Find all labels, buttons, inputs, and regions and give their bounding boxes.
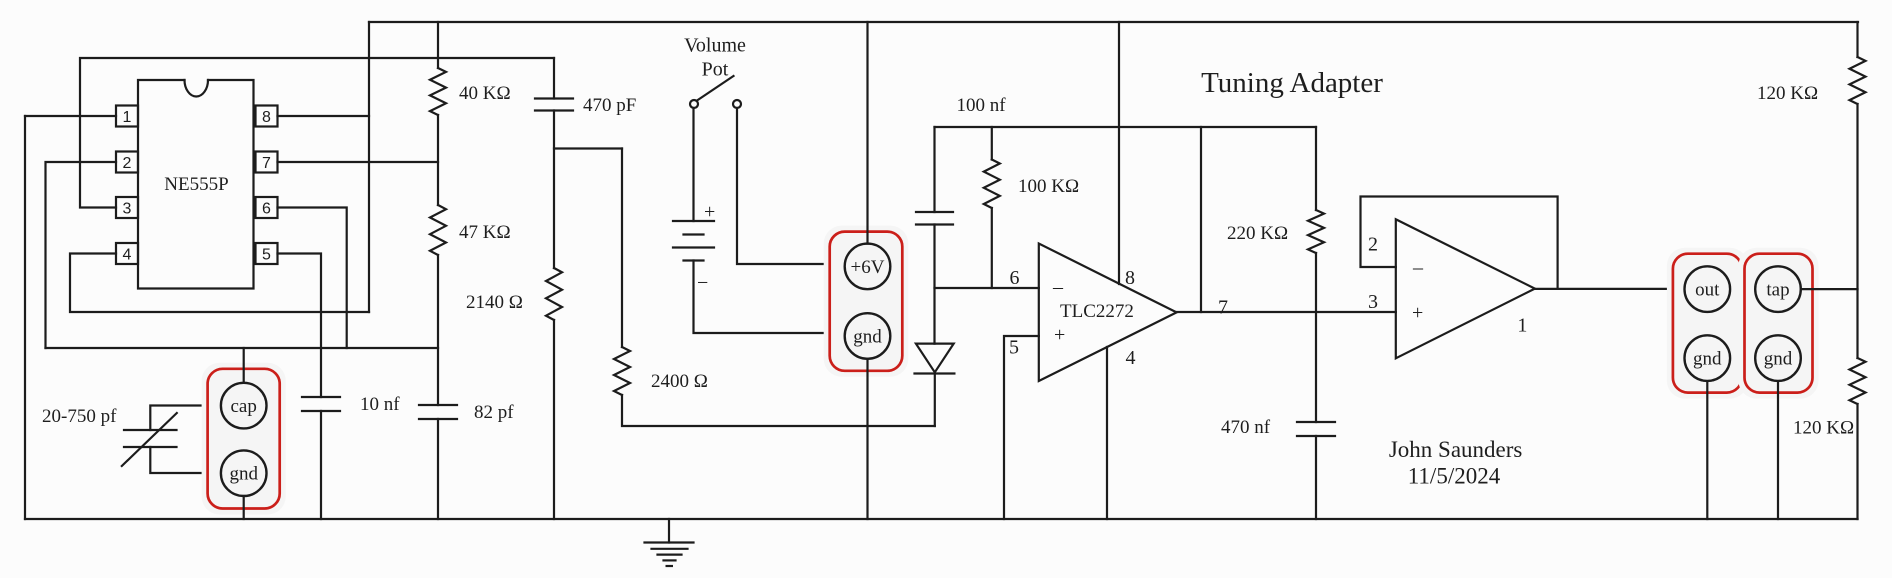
svg-text:2: 2 — [123, 155, 132, 172]
capacitor 470 pF — [535, 95, 636, 116]
wire top supply rail — [369, 21, 1858, 23]
svg-text:8: 8 — [1125, 267, 1135, 289]
svg-text:out: out — [1695, 280, 1720, 301]
svg-text:47 KΩ: 47 KΩ — [459, 222, 511, 243]
capacitor 470 nf — [1221, 417, 1335, 438]
wire 2400 resistor to diode bottom — [622, 395, 935, 426]
svg-text:7: 7 — [1218, 297, 1228, 319]
wire inverting input (pin 6) of op-amp U2 — [935, 287, 1039, 289]
wire 100 nf down to diode — [933, 225, 935, 344]
svg-text:470 pF: 470 pF — [583, 95, 636, 116]
svg-text:4: 4 — [123, 247, 132, 264]
wire pin 8 to VCC vertical — [278, 115, 370, 117]
svg-text:11/5/2024: 11/5/2024 — [1408, 464, 1501, 489]
wire gnd connector to ground rail — [866, 359, 868, 519]
wire branch to 2400 resistor — [554, 147, 622, 149]
wire supply vertical through +6V connector — [866, 22, 868, 244]
wire unity feedback loop pin 2 to output — [1361, 197, 1558, 289]
pin 8 — [256, 106, 278, 127]
wire pin 7 discharge to resistor divider — [278, 161, 439, 163]
ground — [645, 519, 694, 566]
wire VCC vertical at x=369 — [368, 22, 370, 312]
wire diode to 2400 net — [934, 374, 936, 427]
svg-text:1: 1 — [1517, 315, 1527, 337]
svg-text:3: 3 — [123, 201, 132, 218]
svg-text:40 KΩ: 40 KΩ — [459, 83, 511, 104]
svg-text:tap: tap — [1766, 280, 1789, 301]
svg-text:gnd: gnd — [1693, 349, 1722, 370]
node cap connector — [202, 363, 286, 515]
wire 2140 resistor to ground rail — [553, 320, 555, 519]
pin 1 — [116, 106, 138, 127]
node +6V connector — [824, 226, 909, 377]
svg-text:NE555P: NE555P — [164, 174, 228, 195]
wire lower 120K to ground rail — [1856, 404, 1858, 519]
wire 82 pf to ground rail — [437, 419, 439, 519]
svg-text:5: 5 — [1009, 337, 1019, 359]
svg-text:82 pf: 82 pf — [474, 402, 514, 423]
svg-text:4: 4 — [1126, 347, 1136, 369]
svg-text:gnd: gnd — [1764, 349, 1793, 370]
resistor 2400 Ohm — [614, 149, 708, 396]
svg-text:Tuning Adapter: Tuning Adapter — [1201, 67, 1383, 99]
wire pin 4 to ground rail — [1106, 347, 1108, 519]
op-amp U2 TLC2272 — [1039, 244, 1177, 382]
svg-text:3: 3 — [1368, 291, 1378, 313]
wire pin 4 reset to VCC vertical — [70, 254, 369, 313]
wire output feedback up to rail — [1200, 127, 1202, 312]
wire 470 pF top lead — [553, 58, 555, 99]
svg-text:100 nf: 100 nf — [956, 95, 1006, 116]
wire pin 5 to ground rail — [1004, 336, 1039, 519]
svg-text:1: 1 — [123, 109, 132, 126]
wire pin 2 down to trigger net — [46, 162, 117, 348]
wire trigger net down to cap connector — [243, 348, 245, 383]
wire battery minus to gnd connector — [694, 261, 845, 334]
wire trigger-threshold net horizontal — [46, 347, 439, 349]
wire op-amp U3 output to out connector — [1535, 288, 1684, 290]
svg-text:7: 7 — [262, 155, 271, 172]
wire 47K bottom to 82 pf capacitor — [437, 255, 439, 405]
resistor 120 KOhm lower — [1793, 358, 1866, 439]
pin 7 — [256, 152, 278, 173]
battery B1 6V — [673, 108, 715, 294]
capacitor 82 pf — [419, 402, 514, 423]
wire cap connector gnd to ground rail — [243, 496, 245, 519]
svg-text:120 KΩ: 120 KΩ — [1757, 83, 1818, 104]
svg-text:Pot: Pot — [702, 59, 729, 81]
svg-text:–: – — [1412, 257, 1424, 279]
svg-text:+6V: +6V — [851, 257, 885, 278]
svg-text:2140 Ω: 2140 Ω — [466, 292, 523, 313]
wire out gnd to ground rail — [1706, 381, 1708, 519]
wire tap gnd to ground rail — [1777, 381, 1779, 519]
svg-text:gnd: gnd — [229, 464, 258, 485]
svg-text:Volume: Volume — [684, 35, 746, 57]
pin 2 — [116, 152, 138, 173]
svg-text:6: 6 — [1010, 267, 1020, 289]
switch volume pot — [684, 35, 746, 109]
wire tap to right divider — [1801, 288, 1858, 290]
wire bottom ground rail — [25, 518, 1858, 520]
svg-text:+: + — [1054, 324, 1065, 346]
wire op-amp U2 output (pin 7) to second op-amp — [1177, 311, 1396, 313]
svg-text:TLC2272: TLC2272 — [1060, 301, 1134, 322]
resistor 100 KOhm — [984, 127, 1079, 288]
pin 4 — [116, 243, 138, 264]
pin 3 — [116, 197, 138, 218]
svg-text:220 KΩ: 220 KΩ — [1227, 223, 1288, 244]
capacitor 100 nf — [916, 95, 1006, 225]
wire right divider middle — [1856, 104, 1858, 358]
svg-text:5: 5 — [262, 247, 271, 264]
IC U1 NE555P body — [138, 80, 254, 289]
svg-text:gnd: gnd — [853, 326, 882, 347]
svg-text:6: 6 — [262, 201, 271, 218]
wire 470 nf to ground rail — [1315, 436, 1317, 519]
wire feedback rail of first op-amp — [935, 126, 1317, 128]
svg-text:120 KΩ: 120 KΩ — [1793, 418, 1854, 439]
svg-text:+: + — [1412, 302, 1423, 324]
resistor 120 KOhm upper — [1757, 22, 1866, 104]
pin 6 — [256, 197, 278, 218]
resistor 2140 Ohm — [466, 268, 562, 320]
variable capacitor 20-750 pf — [42, 406, 221, 474]
pin 5 — [256, 243, 278, 264]
svg-text:20-750 pf: 20-750 pf — [42, 406, 117, 427]
node tap connector — [1739, 248, 1819, 399]
op-amp U3 second half — [1396, 219, 1535, 358]
resistor 40 KOhm — [430, 22, 511, 115]
diode D1 — [915, 344, 955, 374]
svg-text:2400 Ω: 2400 Ω — [651, 371, 708, 392]
wire rail down to 100 nf — [933, 127, 935, 212]
wire pin 6 threshold down to trigger net — [278, 208, 347, 349]
wire 470 pF bottom to 2140 resistor — [553, 111, 555, 269]
wire left ground vertical (pin 1 to ground rail) — [24, 116, 26, 519]
wire battery plus to +6V connector (via pot) — [737, 108, 845, 264]
svg-text:cap: cap — [231, 396, 257, 417]
wire 10 nf capacitor to ground rail — [320, 411, 322, 519]
wire pin 3 output up and right to 470 pF — [80, 58, 554, 208]
svg-text:10 nf: 10 nf — [360, 394, 400, 415]
svg-text:8: 8 — [262, 109, 271, 126]
wire pin 8 supply from top rail — [1118, 22, 1120, 284]
svg-text:2: 2 — [1368, 234, 1378, 256]
svg-text:−: − — [697, 272, 708, 294]
wire pin 5 control to 10 nf capacitor — [278, 254, 322, 398]
wire pin 1 to left ground vertical — [25, 115, 116, 117]
svg-text:100 KΩ: 100 KΩ — [1018, 176, 1079, 197]
node out connector — [1667, 248, 1748, 399]
svg-text:–: – — [1052, 276, 1064, 298]
resistor 220 KOhm — [1227, 127, 1324, 253]
svg-text:+: + — [704, 201, 715, 223]
capacitor 10 nf — [302, 394, 400, 415]
wire 220K down through output node to 470 nf — [1315, 253, 1317, 422]
svg-text:John Saunders: John Saunders — [1389, 437, 1523, 462]
svg-text:470 nf: 470 nf — [1221, 417, 1271, 438]
resistor 47 KOhm — [430, 115, 511, 255]
